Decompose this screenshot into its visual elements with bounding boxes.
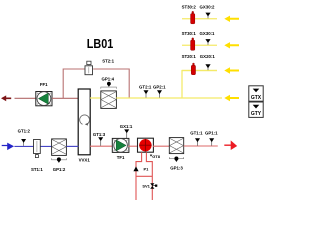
pipe shunt bridge <box>136 175 152 177</box>
label ST1:1 <box>31 167 43 172</box>
svg-text:GT1:3: GT1:3 <box>93 132 106 137</box>
wire supply VVX1 to TF1 <box>90 145 112 147</box>
label GT1:2 <box>18 128 31 133</box>
svg-text:GT8: GT8 <box>152 154 161 159</box>
svg-text:ST30:2: ST30:2 <box>182 4 197 9</box>
damper actuator ST20:1 <box>191 63 195 75</box>
sensor GX1:1 <box>124 129 129 138</box>
label GX30:2 <box>200 4 216 9</box>
exhaust outlet arrow <box>1 95 11 101</box>
svg-text:GP1:2: GP1:2 <box>53 167 66 172</box>
sensor GX30:2 <box>205 13 210 19</box>
damper actuator ST30:1 <box>191 38 195 50</box>
sensor GT1:1 <box>195 138 200 145</box>
title LB01 <box>87 36 114 51</box>
indicator box GTX <box>249 86 263 101</box>
svg-text:GX30:1: GX30:1 <box>200 31 216 36</box>
label GP1:4 <box>102 76 115 81</box>
svg-text:GP1:3: GP1:3 <box>170 166 183 171</box>
svg-text:GX30:2: GX30:2 <box>200 4 216 9</box>
wire supply to outlet <box>184 145 218 147</box>
sensor GT8 <box>150 154 161 159</box>
sensor GP1:1 <box>209 138 214 145</box>
sensor GX30:1 <box>205 39 210 45</box>
wire zone duct ST30:1 <box>182 44 217 46</box>
svg-text:GT1:2: GT1:2 <box>18 128 31 133</box>
svg-text:GT2:1: GT2:1 <box>139 84 152 89</box>
arrow extract outlet <box>224 95 239 101</box>
label GT1:1 <box>190 131 203 136</box>
label ST30:2 <box>182 4 197 9</box>
svg-text:FF1: FF1 <box>40 82 48 87</box>
label P1 <box>144 167 150 172</box>
sensor GT1:3 <box>98 137 103 146</box>
filter GP1:3 <box>169 138 183 154</box>
svg-text:GX1:1: GX1:1 <box>120 124 133 129</box>
wire yellow riser to ST20:1 <box>182 71 217 99</box>
label VVX1 <box>79 158 91 163</box>
label ST30:1 <box>182 31 197 36</box>
svg-text:LB01: LB01 <box>87 36 114 51</box>
indicator box GTY <box>249 102 263 117</box>
wire outdoor air to VVX1 <box>66 145 78 147</box>
wire supply coil to GP1:3 <box>153 145 169 147</box>
damper actuator ST30:2 <box>191 11 195 23</box>
svg-text:GX20:1: GX20:1 <box>200 54 216 59</box>
svg-text:GTY: GTY <box>251 111 262 117</box>
sensor dome GP1:3 <box>169 157 183 163</box>
svg-text:P1: P1 <box>144 167 150 172</box>
wire extract yellow VVX1 to GP1:4 <box>90 97 101 99</box>
heat exchanger VVX1 <box>78 89 90 155</box>
wire exhaust duct FF1 to VVX1 <box>52 97 78 99</box>
heating coil <box>138 138 154 152</box>
label GX1:1 <box>120 124 133 129</box>
svg-text:ST30:1: ST30:1 <box>182 31 197 36</box>
arrow zone ST20:1 <box>224 67 239 73</box>
wire zone duct ST20:1 <box>182 70 217 72</box>
label SV1 <box>142 184 150 189</box>
filter GP1:4 <box>101 91 117 109</box>
fan FF1 <box>36 92 52 106</box>
svg-text:GTX: GTX <box>251 95 262 101</box>
wire outdoor air blue <box>14 145 51 147</box>
label GT2:1 <box>139 84 152 89</box>
label GP1:1 <box>205 131 218 136</box>
label GT1:3 <box>93 132 106 137</box>
sensor GP2:1 <box>157 90 162 97</box>
wire supply TF1 to coil <box>128 145 137 147</box>
label ST2:1 <box>102 59 114 64</box>
sensor dome GP1:2 <box>52 157 67 163</box>
valve SV1 <box>150 183 157 189</box>
wire zone duct ST30:2 <box>182 18 217 20</box>
svg-text:TF1: TF1 <box>117 155 125 160</box>
svg-text:GP2:1: GP2:1 <box>153 84 166 89</box>
svg-text:VVX1: VVX1 <box>79 158 91 163</box>
label GP1:3 <box>170 166 183 171</box>
label GP1:2 <box>53 167 66 172</box>
sensor dome GP1:4 <box>101 82 117 89</box>
damper ST1:1 <box>34 140 41 158</box>
wire extract yellow main <box>116 97 222 99</box>
arrow zone ST30:2 <box>224 16 239 22</box>
label FF1 <box>40 82 48 87</box>
fan TF1 <box>112 138 129 152</box>
svg-text:ST1:1: ST1:1 <box>31 167 43 172</box>
svg-text:ST2:1: ST2:1 <box>102 59 114 64</box>
arrow zone ST30:1 <box>224 42 239 48</box>
pipe return right riser <box>146 152 152 200</box>
sensor GT2:1 <box>144 90 149 97</box>
wire bypass loop <box>63 69 129 98</box>
svg-text:GP1:4: GP1:4 <box>102 76 115 81</box>
filter GP1:2 <box>52 139 67 156</box>
label GX30:1 <box>200 31 216 36</box>
svg-text:GP1:1: GP1:1 <box>205 131 218 136</box>
arrow outdoor air inlet <box>2 144 13 150</box>
pump P1 <box>133 166 138 171</box>
arrow supply outlet <box>224 142 236 149</box>
wire exhaust duct left segment <box>15 97 37 99</box>
label ST20:1 <box>182 54 197 59</box>
damper ST2:1 <box>85 61 93 75</box>
sensor GT1:2 <box>21 139 26 146</box>
svg-text:SV1: SV1 <box>142 184 150 189</box>
svg-text:ST20:1: ST20:1 <box>182 54 197 59</box>
pipe supply left riser <box>136 152 142 200</box>
label GX20:1 <box>200 54 216 59</box>
svg-text:GT1:1: GT1:1 <box>190 131 203 136</box>
label GP2:1 <box>153 84 166 89</box>
label TF1 <box>117 155 125 160</box>
sensor GX20:1 <box>205 64 210 70</box>
